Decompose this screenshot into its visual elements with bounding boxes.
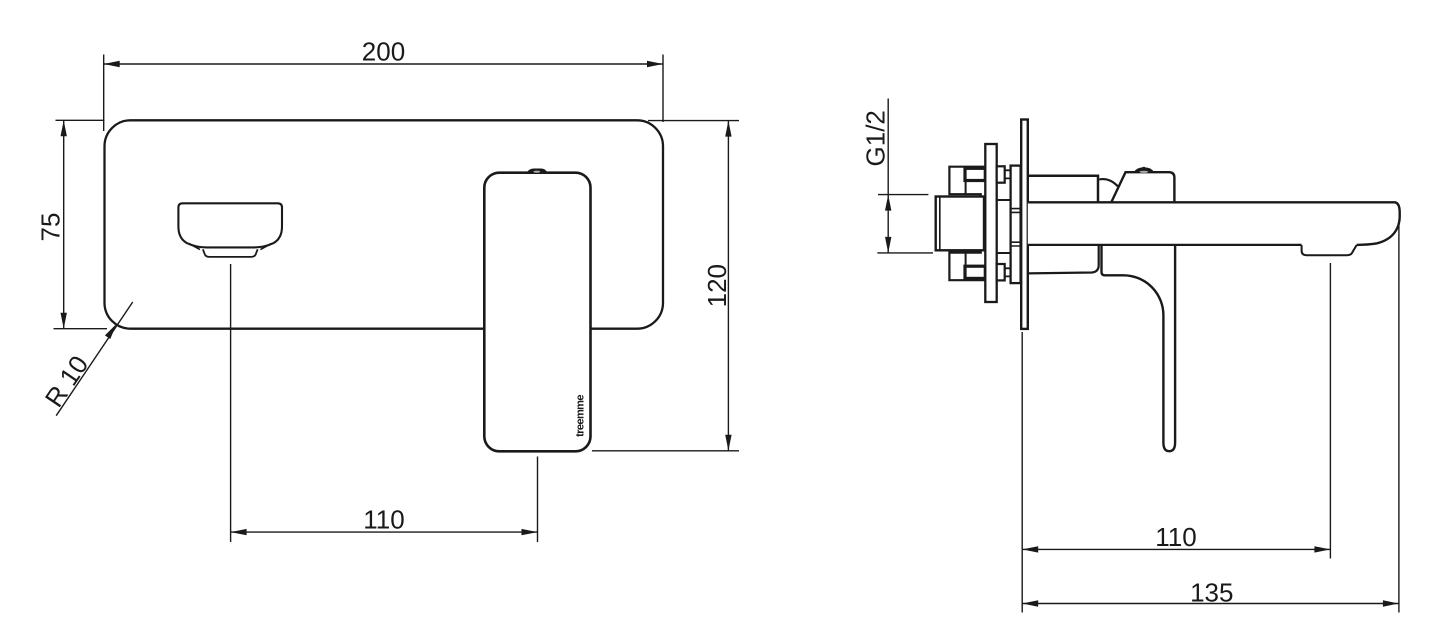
svg-text:135: 135 xyxy=(1190,577,1233,607)
lever cap side view xyxy=(1111,172,1174,202)
upper nut xyxy=(997,166,1005,182)
dim 200 extension right xyxy=(662,55,664,123)
R10 leader line xyxy=(56,302,133,416)
dim 75 arrow bottom xyxy=(61,313,67,329)
dim 75 extension top xyxy=(56,119,105,121)
svg-text:75: 75 xyxy=(35,213,65,242)
lever cap screw bump xyxy=(1135,168,1153,172)
dim 120 arrow top xyxy=(725,121,731,137)
dim 110 left arrow left xyxy=(231,529,247,535)
upper mounting bolt xyxy=(965,168,985,180)
lower nut xyxy=(997,264,1005,280)
dim 135 arrow left xyxy=(1022,600,1038,606)
wall plate front view xyxy=(105,120,664,328)
wall plate extension line below xyxy=(1021,332,1023,613)
supply pipe lines bracket to sleeve xyxy=(997,200,1011,253)
G1/2 arrow bottom xyxy=(885,237,891,253)
cartridge sleeve column xyxy=(1011,166,1021,284)
dim 75 arrow top xyxy=(61,120,67,136)
lower mounting bolt xyxy=(965,266,985,278)
aerator lip front view xyxy=(203,249,258,257)
spout tip extension line xyxy=(1398,221,1400,613)
spout centerline front view xyxy=(230,264,232,542)
lower bolt shank lines xyxy=(1005,268,1011,276)
handle front view xyxy=(484,173,590,452)
spout side view fill xyxy=(1028,202,1400,245)
aerator centerline extension xyxy=(1329,263,1331,559)
dim 135 line xyxy=(1022,603,1399,605)
upper bolt shank lines xyxy=(1005,170,1011,178)
dim 120 arrow bottom xyxy=(725,435,731,451)
dim 120 extension bottom xyxy=(592,450,739,452)
G1/2 leader line xyxy=(887,99,889,195)
upper bolt below-shank line xyxy=(965,181,967,195)
handle extension line front view xyxy=(537,457,539,543)
dim 200 extension left xyxy=(103,55,105,132)
G1/2 extension top xyxy=(878,194,928,196)
aerator side view xyxy=(1302,245,1357,255)
dim 110 right arrow right xyxy=(1314,546,1330,552)
G1/2 dim line xyxy=(887,195,889,253)
svg-text:200: 200 xyxy=(362,37,405,67)
cartridge dome arc xyxy=(1099,179,1118,186)
dim 200 arrow right xyxy=(647,61,663,67)
dim 120 extension top xyxy=(648,120,739,122)
body lower section xyxy=(1028,246,1099,274)
svg-text:120: 120 xyxy=(702,264,732,307)
sleeve division lines xyxy=(1011,209,1021,246)
wall plate side view xyxy=(1021,120,1028,329)
lever blade side view xyxy=(1102,246,1176,452)
handle screw bump front view xyxy=(528,169,547,172)
svg-text:110: 110 xyxy=(363,504,404,534)
spout side view bottom left segment xyxy=(1028,244,1302,246)
dim 110 left line xyxy=(231,531,538,533)
svg-text:G1/2: G1/2 xyxy=(861,110,891,166)
dim 120 line xyxy=(727,121,729,451)
dim 135 arrow right xyxy=(1383,600,1399,606)
spout side view top and tip xyxy=(1028,202,1400,245)
G1/2 extension bottom xyxy=(877,252,933,254)
mixer body top xyxy=(1028,176,1098,203)
spout foot tick left xyxy=(189,244,200,250)
dim 75 extension bottom xyxy=(54,328,108,330)
spout foot tick right xyxy=(260,244,271,250)
dim 110 left arrow right xyxy=(522,529,538,535)
dim 110 right line xyxy=(1022,548,1330,550)
lower clamp arm xyxy=(949,250,985,280)
svg-text:treemme: treemme xyxy=(575,395,587,437)
valve body block G1/2 xyxy=(936,197,984,251)
R10 leader arrow xyxy=(105,324,117,339)
dim 200 arrow left xyxy=(104,61,120,67)
spout bowl front view xyxy=(178,203,282,247)
G1/2 arrow top xyxy=(885,195,891,211)
svg-text:110: 110 xyxy=(1155,522,1196,552)
dim 200 line xyxy=(104,63,663,65)
mounting bracket plate xyxy=(985,144,996,302)
dim 110 right arrow left xyxy=(1022,546,1038,552)
dim 75 line xyxy=(63,120,65,328)
lower bolt below-shank line xyxy=(965,253,967,267)
valve body block inner edge xyxy=(939,197,941,251)
upper clamp arm xyxy=(949,167,985,197)
